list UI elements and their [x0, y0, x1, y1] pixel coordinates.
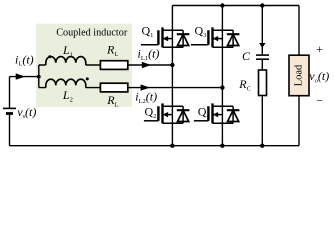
resistor RL lower: [100, 83, 127, 92]
inductor L1: [46, 57, 86, 65]
wire top rail: [172, 5, 299, 7]
junction node bottom rail C: [260, 144, 264, 148]
current arrow iL: [16, 73, 26, 79]
junction node top rail C: [260, 3, 264, 7]
transistor Q1 with body diode: [141, 27, 190, 47]
junction node leg B lower branch: [220, 85, 224, 89]
current arrow iL2: [141, 84, 150, 90]
transistor Q3 with body diode: [191, 27, 240, 47]
junction node leg A upper branch: [170, 63, 174, 67]
svg-text:C: C: [242, 49, 251, 63]
junction node top rail Q3: [220, 3, 224, 7]
wire input horizontal: [10, 76, 39, 78]
wire bottom rail: [10, 145, 300, 147]
battery source vs: [3, 108, 16, 113]
svg-text:+: +: [316, 42, 323, 56]
svg-text:iL2(t): iL2(t): [135, 89, 157, 104]
capacitor C: [256, 55, 269, 59]
svg-text:vo(t): vo(t): [309, 69, 329, 84]
junction node bottom rail leg A: [170, 144, 174, 148]
wire C branch vertical: [261, 6, 263, 146]
transistor Q4 with body diode: [194, 103, 240, 123]
wire source branch left: [9, 77, 11, 146]
dot mark L1: [48, 55, 51, 58]
wire lower branch: [39, 87, 223, 89]
svg-text:iL(t): iL(t): [15, 52, 34, 67]
wire leg B (Q3/Q4 column): [221, 6, 223, 146]
resistor RC: [259, 70, 267, 96]
current arrow into C: [259, 43, 265, 48]
coupled inductor shaded region: [36, 24, 132, 107]
load box: [289, 55, 309, 95]
inductor L2: [46, 79, 86, 87]
wire upper branch: [39, 64, 173, 66]
junction node bottom rail leg B: [220, 144, 224, 148]
svg-text:−: −: [316, 94, 323, 108]
wire input split vertical: [38, 65, 40, 88]
dot mark L2: [86, 77, 89, 80]
wire load branch vertical: [298, 6, 300, 146]
svg-text:Coupled inductor: Coupled inductor: [56, 27, 128, 38]
resistor RL upper: [100, 61, 127, 70]
transistor Q2 with body diode: [144, 103, 190, 123]
current arrow iL1: [142, 62, 151, 68]
svg-text:vs(t): vs(t): [17, 105, 36, 120]
junction node input split: [37, 75, 41, 79]
svg-text:Load: Load: [294, 64, 305, 86]
wire leg A (Q1/Q2 column): [171, 6, 173, 146]
svg-text:iL1(t): iL1(t): [138, 47, 160, 62]
